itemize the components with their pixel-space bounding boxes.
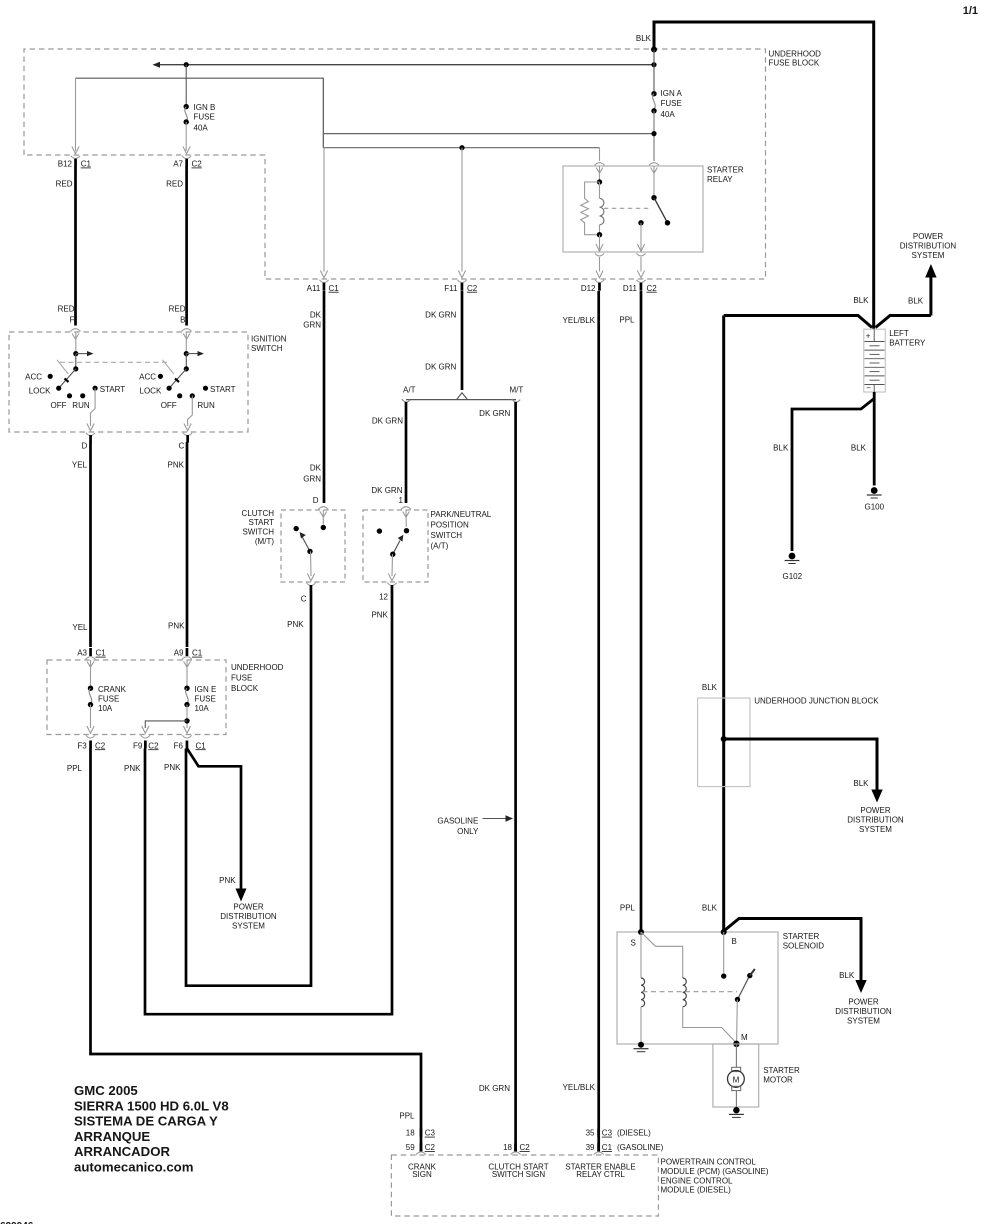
svg-text:ACC: ACC — [25, 373, 42, 382]
svg-text:G102: G102 — [783, 572, 803, 581]
arrowhead power distribution (junction) — [871, 790, 882, 803]
wire: feed line y=147.7 to starter relay coil — [323, 147, 599, 149]
svg-text:F11: F11 — [444, 284, 458, 293]
PCM pin row: clutch start switch sign — [514, 1143, 517, 1151]
svg-text:RELAY: RELAY — [707, 175, 733, 184]
svg-text:SWITCH: SWITCH — [431, 531, 463, 540]
svg-text:YEL/BLK: YEL/BLK — [563, 1083, 596, 1092]
svg-text:SYSTEM: SYSTEM — [859, 825, 892, 834]
solenoid pull-in winding branch from S — [641, 932, 683, 978]
ground G100 — [871, 487, 878, 494]
svg-text:MOTOR: MOTOR — [763, 1075, 793, 1084]
svg-text:SWITCH: SWITCH — [242, 528, 274, 537]
svg-text:C1: C1 — [329, 284, 340, 293]
arrowhead power distribution (bottom right) — [855, 980, 866, 993]
svg-text:S: S — [631, 938, 636, 947]
svg-text:C1: C1 — [196, 741, 207, 750]
svg-text:IGNITION: IGNITION — [251, 335, 287, 344]
clutch switch arm with arrow — [303, 538, 311, 552]
park/neutral position switch box (A/T) — [363, 510, 428, 582]
fuse CRANK 10A — [90, 660, 92, 686]
svg-text:C1: C1 — [81, 160, 92, 169]
ground under starter motor — [733, 1107, 739, 1113]
svg-text:PPL: PPL — [619, 316, 635, 325]
node: ignition left rotor dot — [73, 366, 78, 371]
svg-text:YEL: YEL — [72, 461, 88, 470]
svg-text:SOLENOID: SOLENOID — [783, 942, 825, 951]
connector pin C at clutch switch bottom — [306, 574, 315, 586]
relay coil branch wiring — [599, 166, 601, 182]
connector pin at relay top (switch) — [649, 163, 659, 174]
svg-text:POSITION: POSITION — [431, 521, 469, 530]
fuse IGN A 40A — [653, 50, 655, 92]
svg-text:PNK: PNK — [287, 620, 304, 629]
wire: A11 riser inside fuse block — [323, 148, 325, 272]
svg-text:BLK: BLK — [839, 971, 855, 980]
svg-text:10A: 10A — [195, 704, 210, 713]
svg-text:G100: G100 — [865, 503, 885, 512]
svg-text:MODULE (PCM) (GASOLINE): MODULE (PCM) (GASOLINE) — [661, 1167, 769, 1176]
svg-text:PPL: PPL — [399, 1112, 415, 1121]
node: solenoid B terminal — [721, 929, 727, 935]
svg-text:BLK: BLK — [851, 444, 867, 453]
solenoid B contact — [723, 932, 725, 973]
solenoid switch arm — [747, 973, 752, 978]
ignition mechanical link dashed — [60, 361, 170, 363]
svg-text:START: START — [210, 385, 236, 394]
wire: F3 PPL down right to PCM crank sign — [91, 749, 422, 1130]
svg-text:GRN: GRN — [303, 321, 321, 330]
svg-text:(A/T): (A/T) — [431, 542, 449, 551]
svg-text:FUSE: FUSE — [231, 673, 252, 682]
wire: D11 PPL down to solenoid S — [640, 291, 643, 932]
svg-text:C1: C1 — [192, 649, 203, 658]
svg-text:A9: A9 — [174, 649, 184, 658]
svg-text:PNK: PNK — [124, 764, 141, 773]
svg-text:SYSTEM: SYSTEM — [847, 1017, 880, 1026]
svg-text:18: 18 — [406, 1129, 415, 1138]
svg-text:SWITCH: SWITCH — [251, 344, 283, 353]
ground inside solenoid — [638, 1042, 644, 1048]
node: junction dot F11 tap — [459, 145, 464, 150]
PCM pin rows: starter enable relay ctrl — [597, 1129, 600, 1137]
wire: A7 RED to ignition switch B — [185, 167, 188, 326]
svg-text:START: START — [100, 385, 126, 394]
svg-text:POWER: POWER — [913, 232, 943, 241]
ignition right branch arrow — [186, 353, 199, 355]
svg-text:M: M — [733, 1075, 740, 1084]
svg-text:(M/T): (M/T) — [255, 537, 274, 546]
wire: junction block branch to power distribution — [724, 739, 877, 792]
svg-text:GASOLINE: GASOLINE — [437, 816, 478, 825]
svg-text:+: + — [866, 332, 871, 341]
fuse IGN E 10A — [186, 660, 188, 686]
park/neutral arm to 12 exit — [391, 554, 394, 576]
svg-text:F9: F9 — [133, 741, 143, 750]
svg-text:D: D — [313, 496, 319, 505]
node: IGN E branch dot to F9 — [184, 718, 189, 723]
solenoid winding 1 coil — [641, 978, 645, 1007]
solenoid hold-in winding from S — [640, 932, 642, 978]
svg-text:SWITCH SIGN: SWITCH SIGN — [492, 1170, 546, 1179]
svg-text:UNDERHOOD: UNDERHOOD — [231, 663, 284, 672]
svg-text:FUSE BLOCK: FUSE BLOCK — [769, 59, 820, 68]
svg-text:18: 18 — [503, 1143, 512, 1152]
svg-text:PNK: PNK — [219, 876, 236, 885]
ignition switch box — [9, 332, 248, 432]
svg-text:BLK: BLK — [853, 779, 869, 788]
connector pin C at ignition box bottom — [183, 424, 192, 436]
connector A3 above fuse block — [89, 648, 92, 656]
node: junction dot bus / BLK vertical — [651, 62, 656, 67]
svg-text:SIERRA 1500 HD 6.0L V8: SIERRA 1500 HD 6.0L V8 — [74, 1098, 229, 1113]
wire: F6 PNK branch to power distribution arrow — [187, 749, 241, 892]
svg-text:35: 35 — [586, 1129, 595, 1138]
wire: B12 RED to ignition switch F — [74, 167, 77, 326]
wire: top bus (y=65) inside fuse block — [157, 64, 654, 66]
svg-text:C2: C2 — [467, 284, 478, 293]
svg-text:ENGINE CONTROL: ENGINE CONTROL — [661, 1176, 734, 1185]
svg-text:PNK: PNK — [168, 622, 185, 631]
svg-text:D11: D11 — [623, 284, 638, 293]
svg-text:BLK: BLK — [702, 904, 718, 913]
svg-text:1/1: 1/1 — [963, 5, 978, 17]
underhood junction block box — [698, 698, 750, 787]
svg-text:D12: D12 — [581, 284, 596, 293]
connector D11 at fuse block boundary — [636, 271, 645, 283]
starter motor box — [713, 1044, 759, 1107]
svg-text:DK GRN: DK GRN — [479, 409, 510, 418]
svg-text:ARRANQUE: ARRANQUE — [74, 1129, 150, 1144]
svg-text:C1: C1 — [96, 649, 107, 658]
wire: C PNK down to A9 — [186, 442, 189, 647]
wire: feed to IGN A fuse junction (y=133.6) — [323, 133, 654, 135]
svg-text:STARTER: STARTER — [783, 932, 820, 941]
clutch switch contact from D — [322, 510, 324, 524]
svg-text:C2: C2 — [520, 1143, 531, 1152]
svg-text:DISTRIBUTION: DISTRIBUTION — [835, 1007, 892, 1016]
arrow up to power distribution system — [925, 264, 936, 278]
svg-text:DISTRIBUTION: DISTRIBUTION — [900, 241, 957, 250]
svg-text:DK GRN: DK GRN — [425, 311, 456, 320]
svg-text:BLK: BLK — [853, 296, 869, 305]
connector pin 12 at park/neutral switch bottom — [387, 574, 396, 586]
svg-text:POWERTRAIN CONTROL: POWERTRAIN CONTROL — [661, 1158, 757, 1167]
svg-text:39: 39 — [586, 1143, 595, 1152]
node: dot at dashed boundary on BLK — [651, 47, 657, 53]
connector A7 at fuse block boundary — [182, 147, 191, 159]
svg-text:LOCK: LOCK — [140, 387, 162, 396]
ignition left rotor arm to LOCK — [59, 369, 76, 388]
svg-text:C1: C1 — [602, 1143, 613, 1152]
svg-text:RED: RED — [56, 180, 73, 189]
ignition right RUN to C exit — [188, 396, 193, 426]
connector pin relay bottom (coil out D12) — [595, 244, 604, 256]
connector pin B at ignition box top — [182, 329, 192, 340]
solenoid winding 2 coil — [683, 978, 687, 1007]
svg-text:A/T: A/T — [403, 385, 416, 394]
node: relay coil bottom dot — [597, 232, 602, 237]
wire: D12 YEL/BLK down to PCM — [597, 291, 600, 1129]
svg-text:C2: C2 — [425, 1143, 436, 1152]
svg-text:LOCK: LOCK — [29, 387, 51, 396]
node: relay coil top dot — [597, 179, 602, 184]
svg-text:C: C — [179, 442, 185, 451]
connector D12 at fuse block boundary — [595, 271, 604, 283]
wire: B terminal branch to power distribution (bottom right) — [725, 919, 861, 983]
node: solenoid S terminal — [638, 929, 644, 935]
svg-text:BATTERY: BATTERY — [889, 338, 926, 347]
node: relay switch arm end dot — [665, 220, 670, 225]
svg-text:YEL: YEL — [72, 623, 88, 632]
svg-text:MODULE (DIESEL): MODULE (DIESEL) — [661, 1186, 732, 1195]
wire: B12 riser — [75, 78, 77, 151]
wire: DK GRN A/T branch down to park/neutral switch pin 1 — [405, 402, 408, 503]
svg-text:BLK: BLK — [702, 683, 718, 692]
svg-text:A7: A7 — [173, 160, 183, 169]
connector F11 — [457, 271, 466, 283]
svg-text:DISTRIBUTION: DISTRIBUTION — [220, 912, 277, 921]
clutch switch arm to C exit — [310, 551, 313, 576]
svg-text:PARK/NEUTRAL: PARK/NEUTRAL — [431, 510, 492, 519]
ground G102 — [789, 553, 796, 560]
svg-text:BLK: BLK — [636, 34, 652, 43]
svg-text:GMC 2005: GMC 2005 — [74, 1083, 138, 1098]
svg-text:C: C — [301, 594, 307, 603]
ignition left START to D exit — [91, 388, 96, 426]
svg-text:RED: RED — [166, 180, 183, 189]
connector pin 1 at park/neutral switch top — [401, 507, 411, 518]
PCM pin rows: crank sign — [420, 1129, 423, 1137]
svg-text:C2: C2 — [95, 741, 106, 750]
svg-text:IGN A: IGN A — [661, 89, 683, 98]
connector pin D at clutch switch top — [318, 507, 328, 518]
svg-text:FUSE: FUSE — [195, 695, 216, 704]
svg-text:M/T: M/T — [510, 385, 524, 394]
wire: D YEL down to A3 — [89, 442, 92, 647]
svg-text:CRANK: CRANK — [98, 685, 127, 694]
svg-text:UNDERHOOD: UNDERHOOD — [769, 50, 822, 59]
wire: battery negative branch BLK to G102 — [792, 399, 874, 552]
solenoid actuator dashed link — [643, 991, 738, 993]
connector F3 at fuse block bottom — [86, 726, 95, 738]
ignition right section wiring — [185, 332, 187, 354]
svg-text:ONLY: ONLY — [457, 827, 479, 836]
svg-text:DK: DK — [310, 464, 322, 473]
svg-text:D: D — [82, 442, 88, 451]
relay switch arm (open) — [654, 198, 668, 223]
svg-text:RUN: RUN — [72, 401, 90, 410]
svg-text:40A: 40A — [194, 124, 209, 133]
svg-text:BLK: BLK — [773, 444, 789, 453]
relay actuator dashed link — [604, 207, 651, 209]
svg-text:C2: C2 — [647, 284, 658, 293]
svg-text:C3: C3 — [602, 1129, 613, 1138]
svg-text:OFF: OFF — [51, 401, 67, 410]
svg-text:A11: A11 — [307, 284, 321, 293]
svg-text:12: 12 — [379, 593, 388, 602]
svg-text:ACC: ACC — [139, 373, 156, 382]
svg-text:IGN E: IGN E — [195, 685, 217, 694]
wire: battery positive branch right — [876, 316, 931, 328]
svg-text:FUSE: FUSE — [98, 695, 119, 704]
svg-text:DK GRN: DK GRN — [371, 486, 402, 495]
svg-text:C2: C2 — [148, 741, 159, 750]
node: ignition left feed dot — [73, 351, 78, 356]
svg-text:OFF: OFF — [161, 401, 177, 410]
wire: battery positive branch left to junction block drop — [724, 316, 872, 328]
svg-text:SIGN: SIGN — [412, 1170, 432, 1179]
connector F6 at fuse block bottom — [182, 726, 191, 738]
svg-text:POWER: POWER — [860, 806, 890, 815]
splice: A/T - M/T split — [457, 393, 467, 400]
svg-text:PPL: PPL — [67, 764, 83, 773]
park/neutral contact from pin 1 — [405, 510, 407, 527]
node: junction block tap dot — [721, 736, 727, 742]
title block — [74, 1083, 229, 1175]
connector pin D at ignition box bottom — [86, 424, 95, 436]
node: ignition right rotor dot — [184, 366, 189, 371]
wire: battery negative BLK to G100 — [873, 392, 876, 486]
wire: park/neutral 12 PNK down-left-up to F9 — [145, 593, 392, 1015]
svg-text:GRN: GRN — [303, 475, 321, 484]
fuse IGN B 40A — [185, 65, 187, 104]
svg-text:FUSE: FUSE — [661, 99, 682, 108]
connector B12 at fuse block boundary — [71, 147, 80, 159]
svg-text:PNK: PNK — [371, 611, 388, 620]
svg-text:RELAY CTRL: RELAY CTRL — [576, 1170, 625, 1179]
park/neutral switch arm with arrow — [393, 541, 400, 555]
svg-text:B: B — [732, 937, 737, 946]
svg-text:C2: C2 — [192, 160, 203, 169]
svg-text:CLUTCH: CLUTCH — [242, 509, 275, 518]
svg-text:RED: RED — [169, 305, 186, 314]
wire: F11 riser inside fuse block — [461, 148, 463, 272]
node: relay output contact dot — [638, 220, 643, 225]
svg-text:1: 1 — [399, 496, 404, 505]
svg-text:(DIESEL): (DIESEL) — [617, 1129, 651, 1138]
svg-text:POWER: POWER — [848, 998, 878, 1007]
svg-text:40A: 40A — [661, 110, 676, 119]
svg-text:F: F — [70, 316, 75, 325]
connector A11 — [319, 271, 328, 283]
clutch start switch box (M/T) — [281, 510, 345, 582]
svg-text:IGN B: IGN B — [194, 103, 216, 112]
wire: F11 DK GRN down to A/T-M/T split — [461, 291, 464, 390]
svg-text:START: START — [249, 518, 275, 527]
ignition left branch arrow — [76, 353, 89, 355]
left battery symbol — [864, 329, 886, 392]
connector pin relay bottom (switch out D11) — [636, 244, 645, 256]
svg-text:10A: 10A — [98, 704, 113, 713]
ignition left section wiring — [75, 332, 77, 354]
svg-text:FUSE: FUSE — [194, 113, 215, 122]
svg-text:RUN: RUN — [197, 401, 215, 410]
svg-text:SYSTEM: SYSTEM — [232, 922, 265, 931]
svg-text:BLK: BLK — [908, 297, 924, 306]
svg-text:DK GRN: DK GRN — [479, 1084, 510, 1093]
resistor in relay (parallel) — [581, 182, 600, 235]
svg-text:A3: A3 — [77, 649, 87, 658]
node: solenoid M terminal — [733, 1041, 739, 1047]
svg-text:DK GRN: DK GRN — [425, 363, 456, 372]
wire: BLK battery to junction block to solenoid B — [722, 316, 725, 933]
connector F9 at fuse block bottom — [141, 726, 150, 738]
underhood fuse block (top) outline — [24, 49, 766, 279]
svg-text:STARTER: STARTER — [707, 166, 744, 175]
wire: second bus (y=78) from B12 riser to x=323 then down to y=133.6 — [76, 78, 324, 148]
svg-text:PPL: PPL — [620, 904, 636, 913]
svg-text:B12: B12 — [58, 160, 73, 169]
connector pin F at ignition box top — [71, 329, 81, 340]
svg-text:DK: DK — [310, 311, 322, 320]
svg-text:YEL/BLK: YEL/BLK — [563, 316, 596, 325]
svg-text:PNK: PNK — [164, 763, 181, 772]
ignition left position contacts — [48, 374, 53, 379]
wire: BLK thick from dashed boundary up and right to battery — [654, 22, 874, 329]
svg-text:PNK: PNK — [168, 461, 185, 470]
svg-text:C3: C3 — [425, 1129, 436, 1138]
svg-text:DISTRIBUTION: DISTRIBUTION — [847, 816, 904, 825]
starter motor symbol — [735, 1044, 737, 1068]
svg-text:POWER: POWER — [233, 903, 263, 912]
wire: clutch C PNK down-left-up to F6 — [186, 593, 311, 986]
wire: DK GRN M/T branch down to PCM clutch start switch sign — [514, 402, 517, 1144]
starter relay box — [563, 166, 703, 252]
svg-text:(GASOLINE): (GASOLINE) — [617, 1143, 664, 1152]
relay coil winding — [600, 198, 604, 224]
svg-text:LEFT: LEFT — [889, 329, 909, 338]
solenoid winding 2 to M — [683, 1007, 736, 1042]
arrowhead left on top bus — [153, 62, 161, 68]
wire: relay coil riser — [599, 148, 601, 161]
svg-text:SISTEMA DE CARGA Y: SISTEMA DE CARGA Y — [74, 1114, 218, 1129]
relay switch common wiring — [653, 166, 655, 198]
park/neutral open contact — [377, 528, 382, 533]
svg-text:F3: F3 — [77, 741, 87, 750]
svg-text:SYSTEM: SYSTEM — [912, 251, 945, 260]
svg-text:RED: RED — [58, 305, 75, 314]
node: junction dot bus / IGN B feed — [184, 62, 189, 67]
connector A9 above fuse block — [186, 648, 189, 656]
svg-text:STARTER: STARTER — [763, 1066, 800, 1075]
svg-text:B: B — [180, 316, 185, 325]
svg-text:M: M — [741, 1033, 748, 1042]
svg-text:ARRANCADOR: ARRANCADOR — [74, 1144, 170, 1159]
clutch switch open contact — [294, 526, 299, 531]
PCM box dashed — [391, 1155, 658, 1216]
svg-text:DK GRN: DK GRN — [372, 416, 403, 425]
connector pin at relay top (coil) — [595, 163, 605, 174]
svg-text:59: 59 — [406, 1143, 415, 1152]
underhood fuse block (lower) outline — [47, 660, 226, 735]
svg-text:automecanico.com: automecanico.com — [74, 1160, 193, 1175]
node: junction dot IGN A / feed — [651, 131, 656, 136]
svg-text:UNDERHOOD JUNCTION BLOCK: UNDERHOOD JUNCTION BLOCK — [754, 697, 879, 706]
starter solenoid box — [617, 932, 778, 1044]
node: ignition right feed dot — [184, 351, 189, 356]
svg-text:BLOCK: BLOCK — [231, 684, 259, 693]
ignition right rotor arm to LOCK — [169, 369, 186, 388]
arrowhead power distribution (left) — [236, 889, 247, 902]
ignition right position contacts — [158, 374, 163, 379]
node: relay switch pivot dot — [651, 195, 656, 200]
svg-text:F6: F6 — [174, 741, 184, 750]
wire: A11 DK GRN down to clutch start switch D — [323, 291, 326, 503]
